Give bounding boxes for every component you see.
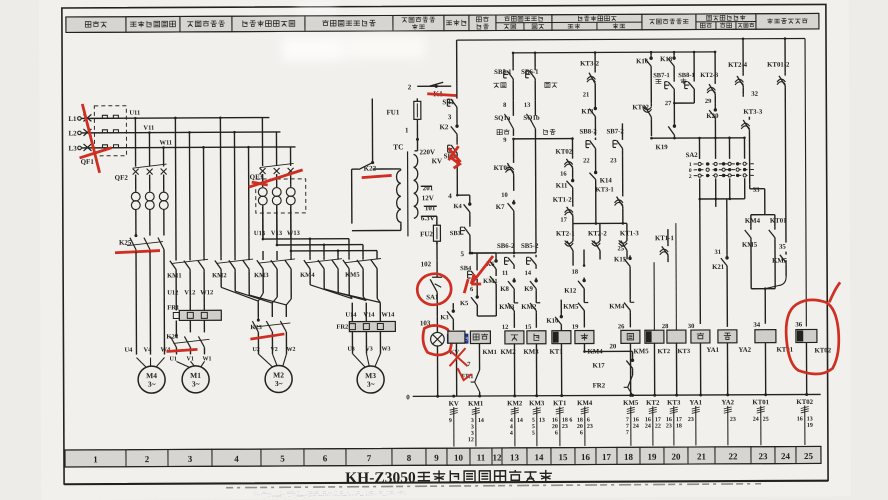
svg-text:16: 16 — [633, 417, 639, 423]
svg-text:KT01-2: KT01-2 — [767, 62, 790, 69]
svg-text:U14: U14 — [345, 312, 357, 319]
svg-text:36: 36 — [795, 322, 802, 329]
svg-text:KM4: KM4 — [745, 218, 761, 225]
svg-text:U3: U3 — [347, 347, 354, 353]
svg-text:KT3-2: KT3-2 — [580, 60, 600, 67]
svg-text:KH-Z3050: KH-Z3050 — [345, 469, 416, 486]
svg-text:SB7-1: SB7-1 — [653, 72, 670, 79]
svg-text:14: 14 — [534, 452, 544, 462]
svg-text:17: 17 — [655, 417, 661, 423]
svg-text:KM4: KM4 — [300, 272, 315, 279]
red circle around SA1 — [415, 271, 453, 307]
svg-text:31: 31 — [715, 249, 722, 256]
svg-text:KT1: KT1 — [553, 400, 567, 407]
svg-text:3~: 3~ — [192, 379, 200, 388]
svg-text:24: 24 — [753, 417, 759, 423]
svg-text:YA2: YA2 — [721, 399, 734, 406]
svg-text:FU2: FU2 — [420, 230, 433, 238]
coil KM1 main-spindle — [470, 331, 490, 344]
svg-text:K8: K8 — [500, 286, 509, 293]
svg-text:14: 14 — [517, 418, 523, 424]
column YA2 K21 x=727 — [726, 199, 728, 255]
svg-text:26: 26 — [618, 323, 625, 330]
svg-text:22: 22 — [728, 451, 738, 461]
fuses under QF3 — [262, 176, 264, 185]
svg-text:10: 10 — [454, 453, 464, 463]
coil KM3 lower — [527, 331, 546, 344]
svg-text:12: 12 — [492, 452, 502, 462]
SA2 collector rail — [651, 137, 745, 139]
svg-text:23: 23 — [688, 417, 694, 423]
svg-text:KT3-3: KT3-3 — [743, 109, 763, 116]
svg-text:17: 17 — [602, 452, 612, 462]
svg-text:17: 17 — [676, 417, 682, 423]
control top bus A — [457, 39, 805, 41]
svg-text:20: 20 — [671, 452, 681, 462]
svg-text:25: 25 — [804, 451, 814, 461]
coil KV — [448, 331, 465, 343]
svg-text:U11: U11 — [129, 110, 140, 117]
svg-text:201: 201 — [423, 184, 434, 192]
svg-text:KT02: KT02 — [556, 149, 573, 156]
red underline under K22 — [362, 175, 392, 177]
svg-text:YA1: YA1 — [689, 399, 702, 406]
svg-text:9: 9 — [449, 418, 452, 424]
svg-text:27: 27 — [665, 100, 672, 107]
svg-text:SB6-2: SB6-2 — [497, 243, 515, 250]
svg-text:V12: V12 — [184, 289, 195, 296]
svg-text:10: 10 — [501, 192, 508, 199]
svg-text:KV: KV — [449, 401, 459, 408]
svg-text:22: 22 — [655, 424, 661, 430]
svg-text:4: 4 — [510, 424, 513, 430]
svg-text:30: 30 — [688, 323, 695, 330]
motor M4 — [137, 358, 147, 368]
svg-text:23: 23 — [587, 424, 593, 430]
svg-text:TC: TC — [393, 142, 403, 151]
svg-text:6: 6 — [323, 453, 328, 463]
svg-text:K5: K5 — [460, 300, 469, 307]
svg-text:L3: L3 — [69, 144, 78, 152]
red underline under K24 — [166, 349, 197, 351]
svg-text:3~: 3~ — [275, 379, 283, 388]
svg-text:L2: L2 — [68, 129, 77, 137]
svg-text:U4: U4 — [124, 347, 133, 354]
svg-text:22: 22 — [583, 158, 590, 165]
red scribble on SB2 — [449, 146, 461, 168]
breaker QF1 — [81, 117, 89, 119]
svg-text:3: 3 — [188, 454, 193, 464]
red ring around lamp — [423, 325, 452, 355]
cross wires KM4-KM5 to M3 and FR2 — [309, 271, 311, 285]
svg-text:KT1-1: KT1-1 — [655, 235, 675, 242]
svg-text:U12: U12 — [167, 289, 178, 296]
svg-text:SB8-1: SB8-1 — [678, 72, 695, 79]
svg-text:KM4: KM4 — [577, 400, 593, 407]
red slash under K23 — [250, 334, 284, 339]
svg-text:18: 18 — [624, 452, 634, 462]
svg-text:18: 18 — [577, 418, 583, 424]
column KM4 loosen coil — [583, 250, 585, 266]
contact K22 feeding TC — [371, 99, 373, 163]
control top bus B — [513, 51, 715, 54]
svg-text:25: 25 — [617, 245, 624, 252]
svg-text:20: 20 — [577, 424, 583, 430]
svg-text:K14: K14 — [600, 177, 613, 184]
coil KM5 tighten — [621, 330, 640, 343]
svg-text:FR2: FR2 — [593, 382, 606, 389]
column KT3-2 K13 SB8-2 K11 etc — [594, 52, 596, 69]
svg-text:KT1-3: KT1-3 — [620, 230, 640, 237]
svg-text:W14: W14 — [381, 311, 395, 318]
svg-text:K3: K3 — [440, 314, 449, 321]
red slash annotation across QF1 — [82, 104, 99, 173]
svg-text:12: 12 — [502, 324, 509, 331]
svg-text:17: 17 — [560, 217, 567, 224]
wire phase L1 — [135, 117, 269, 120]
svg-text:FU1: FU1 — [386, 108, 399, 116]
svg-text:13: 13 — [524, 102, 531, 109]
svg-text:5: 5 — [532, 418, 535, 424]
svg-text:KT01: KT01 — [770, 218, 787, 225]
coil KT2 timer — [645, 330, 664, 343]
coil KT01 — [755, 330, 776, 343]
svg-text:2: 2 — [145, 454, 150, 464]
svg-text:KM1: KM1 — [482, 349, 496, 356]
svg-text:K4: K4 — [453, 203, 462, 210]
svg-text:KT02: KT02 — [796, 399, 813, 406]
svg-text:21: 21 — [697, 451, 707, 461]
svg-text:FR2: FR2 — [336, 324, 348, 331]
svg-text:13: 13 — [539, 418, 545, 424]
motor M2 — [258, 354, 272, 367]
svg-text:SB5-2: SB5-2 — [521, 243, 539, 250]
blue annotation tag — [447, 334, 469, 344]
svg-text:9: 9 — [434, 453, 439, 463]
svg-text:15: 15 — [558, 452, 568, 462]
svg-text:220V: 220V — [420, 148, 436, 156]
svg-text:15: 15 — [525, 324, 532, 331]
faint colored watermark text at bottom — [253, 489, 407, 500]
svg-text:K17: K17 — [593, 362, 606, 369]
start column K1 SB1 K2 SB2 — [456, 40, 458, 86]
svg-text:4: 4 — [510, 431, 513, 437]
column KT02 coil x=806 — [805, 39, 806, 327]
svg-text:23: 23 — [610, 157, 617, 164]
motor M1 — [177, 361, 190, 367]
svg-text:3~: 3~ — [367, 380, 375, 389]
svg-text:QF3: QF3 — [250, 173, 264, 181]
svg-text:19: 19 — [647, 452, 657, 462]
svg-text:KT2: KT2 — [657, 348, 670, 355]
svg-text:QF2: QF2 — [115, 174, 129, 182]
svg-text:16: 16 — [797, 417, 803, 423]
scan white smudges near top — [282, 2, 425, 61]
svg-text:KM5: KM5 — [563, 304, 579, 311]
svg-text:V11: V11 — [143, 125, 154, 132]
svg-text:24: 24 — [645, 424, 651, 430]
column K4 SB3 node5 — [469, 195, 471, 201]
svg-text:V14: V14 — [363, 312, 375, 319]
svg-text:13: 13 — [807, 416, 813, 422]
svg-text:5: 5 — [461, 250, 465, 258]
svg-text:1: 1 — [405, 126, 409, 134]
svg-text:7: 7 — [626, 424, 629, 430]
svg-text:KM3: KM3 — [254, 272, 269, 279]
svg-text:KT2-3: KT2-3 — [700, 72, 719, 79]
svg-text:KM2: KM2 — [212, 272, 226, 279]
svg-text:16: 16 — [645, 417, 651, 423]
svg-text:KT1-2: KT1-2 — [553, 197, 573, 204]
svg-text:0: 0 — [406, 393, 410, 401]
svg-text:3: 3 — [471, 431, 474, 437]
svg-text:U2: U2 — [252, 347, 259, 353]
red scribbles near KV coil — [449, 348, 471, 380]
svg-text:29: 29 — [705, 98, 712, 105]
svg-text:KT02: KT02 — [494, 165, 511, 172]
column KM3 lower — [534, 53, 536, 68]
svg-text:23: 23 — [758, 451, 768, 461]
SA2 bottom rail — [700, 198, 745, 200]
svg-text:KM2: KM2 — [521, 304, 537, 311]
svg-text:101: 101 — [425, 204, 436, 212]
coil YA2 — [718, 330, 737, 343]
svg-text:KT2-2: KT2-2 — [588, 230, 608, 237]
svg-text:K7: K7 — [496, 204, 505, 211]
svg-text:V1: V1 — [187, 356, 194, 362]
coil YA1 pillar — [691, 330, 710, 343]
svg-text:16: 16 — [581, 452, 591, 462]
svg-text:23: 23 — [666, 424, 672, 430]
svg-text:KT3: KT3 — [667, 400, 681, 407]
svg-text:KM3: KM3 — [529, 400, 545, 407]
svg-text:V3: V3 — [365, 347, 372, 353]
column KT3 coil x=676 — [675, 223, 678, 330]
svg-text:K11: K11 — [556, 183, 568, 190]
svg-text:5: 5 — [532, 431, 535, 437]
svg-text:K2: K2 — [439, 123, 448, 131]
motor M3 — [352, 354, 365, 368]
svg-text:16: 16 — [552, 418, 558, 424]
svg-text:KM4: KM4 — [609, 303, 625, 310]
svg-text:1: 1 — [93, 454, 98, 464]
reversing cross wires KM2-KM3 to M2 — [220, 271, 222, 287]
fuses FU under QF2 — [135, 177, 137, 190]
svg-text:KM5: KM5 — [623, 400, 639, 407]
svg-text:28: 28 — [662, 323, 669, 330]
svg-text:18: 18 — [572, 269, 579, 276]
svg-text:3: 3 — [471, 418, 474, 424]
red underline under K1 — [427, 94, 457, 96]
svg-text:18: 18 — [676, 423, 682, 429]
svg-text:W2: W2 — [286, 347, 295, 353]
svg-text:KM2: KM2 — [507, 400, 523, 407]
wire phase L2 — [135, 131, 280, 134]
svg-text:SA2: SA2 — [686, 152, 699, 159]
svg-text:32: 32 — [751, 91, 758, 98]
svg-text:K9: K9 — [524, 286, 533, 293]
svg-text:18 6: 18 6 — [562, 418, 573, 424]
svg-text:KM3: KM3 — [499, 304, 515, 311]
svg-text:4: 4 — [234, 454, 239, 464]
svg-text:20: 20 — [552, 424, 558, 430]
svg-text:KM1: KM1 — [468, 401, 484, 408]
svg-text:5: 5 — [280, 453, 285, 463]
coil KT1 timer — [552, 331, 571, 344]
svg-text:16: 16 — [666, 417, 672, 423]
svg-text:8: 8 — [407, 453, 412, 463]
svg-text:K21: K21 — [712, 264, 725, 271]
header row of function-zone labels — [66, 13, 819, 32]
svg-text:KT01: KT01 — [752, 399, 769, 406]
svg-text:14: 14 — [478, 418, 484, 424]
coil KT02 — [796, 329, 817, 342]
svg-text:19: 19 — [572, 324, 579, 331]
footer numbered column strip 1-25 — [65, 446, 821, 467]
svg-text:16: 16 — [560, 171, 567, 178]
lamp column FU2 SA1 EL — [436, 241, 438, 260]
KM1 start cluster — [470, 252, 496, 254]
svg-text:24: 24 — [781, 451, 791, 461]
svg-text:12: 12 — [468, 437, 474, 443]
svg-text:6: 6 — [587, 418, 590, 424]
svg-text:35: 35 — [779, 244, 786, 251]
fuse FU2 — [436, 216, 438, 224]
indicator lamp EL — [431, 332, 445, 346]
svg-text:W11: W11 — [159, 139, 172, 146]
red slash annotation across QF3 — [249, 170, 303, 187]
svg-text:W12: W12 — [200, 289, 213, 296]
svg-text:YA1: YA1 — [706, 347, 719, 354]
svg-text:.. -- :: == .. -- :: == .. --: .. -- :: == .. -- :: == .. -- :: — [263, 494, 315, 500]
svg-text:11: 11 — [477, 453, 486, 463]
column KT2 coil x=654 — [653, 262, 655, 330]
wire phase L3 — [136, 146, 296, 149]
svg-text:13: 13 — [510, 452, 520, 462]
svg-text:6: 6 — [555, 430, 558, 436]
coil KT3 timer — [667, 330, 686, 343]
svg-text:KM5: KM5 — [633, 348, 649, 355]
scan watermark dashes at bottom — [226, 484, 761, 488]
svg-text:20: 20 — [609, 343, 616, 350]
svg-text:12V: 12V — [422, 194, 434, 202]
node 5 rail — [470, 252, 536, 254]
column YA1 x=700 — [699, 199, 702, 324]
svg-text:SB8-2: SB8-2 — [579, 128, 597, 135]
node 9 rail — [513, 138, 572, 140]
svg-text:KT3: KT3 — [677, 348, 690, 355]
svg-text:34: 34 — [753, 322, 760, 329]
svg-text:KT01: KT01 — [776, 347, 793, 354]
svg-text:K19: K19 — [656, 144, 669, 151]
svg-text:KT02: KT02 — [814, 347, 831, 354]
svg-text:6.3V: 6.3V — [421, 214, 435, 222]
svg-text:4: 4 — [510, 418, 513, 424]
svg-text:2: 2 — [689, 174, 692, 180]
svg-text:3: 3 — [448, 113, 452, 121]
svg-text:25: 25 — [763, 417, 769, 423]
svg-text:U1: U1 — [170, 356, 177, 362]
coil KM4 loosen — [575, 330, 594, 343]
svg-text:KT3-1: KT3-1 — [596, 186, 614, 193]
svg-text:KM5: KM5 — [345, 272, 360, 279]
svg-text:24: 24 — [633, 424, 639, 430]
svg-text:KT2-4: KT2-4 — [728, 62, 748, 69]
svg-text:23: 23 — [562, 424, 568, 430]
svg-text:3: 3 — [471, 424, 474, 430]
svg-text:14: 14 — [525, 270, 532, 277]
red circle around KT02 coil — [786, 282, 841, 374]
svg-text:33: 33 — [753, 187, 760, 194]
svg-text:11: 11 — [502, 270, 508, 277]
svg-text:5: 5 — [532, 424, 535, 430]
coil KM2 raise — [505, 331, 524, 344]
svg-text:6: 6 — [580, 430, 583, 436]
svg-text:KM1: KM1 — [167, 272, 181, 279]
svg-text:V2: V2 — [270, 347, 277, 353]
svg-text:QF1: QF1 — [81, 158, 95, 166]
svg-text:K12: K12 — [564, 288, 577, 295]
svg-text:7: 7 — [626, 417, 629, 423]
svg-text:2: 2 — [408, 83, 412, 91]
svg-text:23: 23 — [730, 417, 736, 423]
svg-text:W3: W3 — [381, 346, 390, 352]
svg-text:V4: V4 — [143, 347, 152, 354]
svg-text:102: 102 — [421, 260, 432, 268]
svg-text:3~: 3~ — [148, 380, 156, 389]
red underline annotation under K25 — [115, 251, 160, 253]
red arrow annotation near SB4 — [464, 256, 493, 293]
svg-text:21: 21 — [583, 92, 590, 99]
svg-text:KV: KV — [432, 157, 443, 165]
relay KV coil column — [452, 303, 454, 308]
svg-text:YA2: YA2 — [738, 347, 751, 354]
svg-text:7: 7 — [367, 453, 372, 463]
svg-text:U13: U13 — [254, 230, 266, 237]
svg-text:KT2: KT2 — [646, 400, 660, 407]
svg-text:KM5: KM5 — [742, 242, 758, 249]
svg-text:FR1: FR1 — [167, 304, 179, 311]
svg-text:19: 19 — [807, 423, 813, 429]
column KM2 raise — [512, 53, 514, 68]
distribution bus from QF3 to KM4 KM5 — [262, 207, 264, 239]
svg-text:4: 4 — [448, 192, 452, 200]
contact K1 — [435, 85, 438, 88]
svg-text:L1: L1 — [68, 115, 77, 123]
svg-text:7: 7 — [626, 430, 629, 436]
svg-text:W13: W13 — [287, 230, 301, 237]
branch 20 K17 FR2 to bus — [584, 350, 632, 352]
wires to motor M4 — [135, 252, 137, 355]
